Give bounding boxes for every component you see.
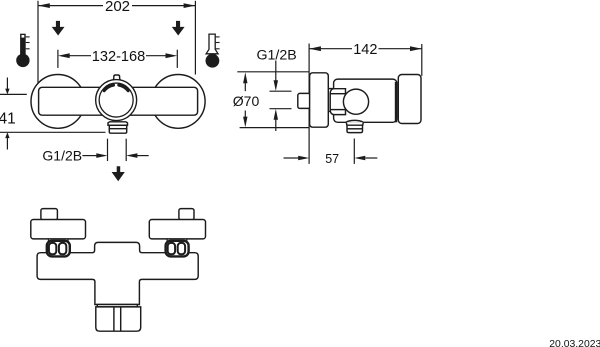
svg-text:57: 57: [325, 152, 339, 166]
svg-text:Ø70: Ø70: [233, 93, 260, 109]
svg-text:G1/2B: G1/2B: [42, 148, 82, 164]
svg-text:G1/2B: G1/2B: [257, 47, 297, 63]
svg-text:20.03.2023: 20.03.2023: [549, 339, 600, 347]
svg-text:202: 202: [105, 0, 130, 15]
svg-text:132-168: 132-168: [92, 49, 146, 65]
svg-text:142: 142: [353, 42, 377, 58]
svg-text:41: 41: [0, 110, 16, 127]
